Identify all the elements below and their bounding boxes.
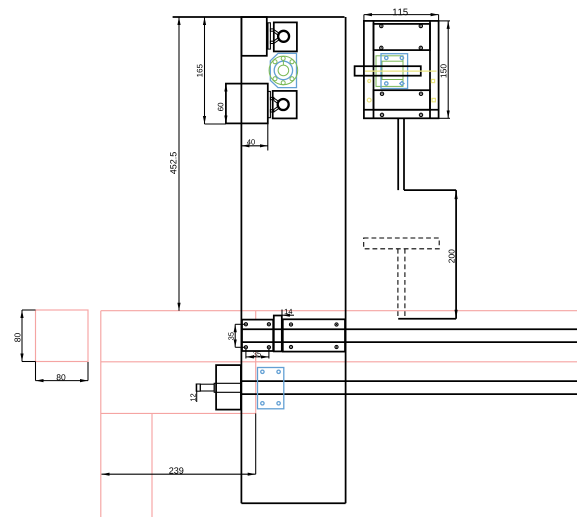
- dimension 14: [282, 309, 294, 317]
- bottom plate holes: [380, 92, 422, 95]
- lower clamp claws: [274, 98, 281, 112]
- upper clamp claws: [274, 30, 281, 44]
- flange blue bolt circle: [274, 61, 292, 79]
- dimension 80 vertical: [14, 310, 35, 362]
- green bracket rect inner: [382, 61, 403, 79]
- dimension 150: [439, 21, 450, 118]
- top plate holes: [380, 24, 423, 49]
- dimension 452.5: [170, 17, 179, 311]
- blue plate holes: [261, 370, 281, 405]
- dashed T horizontal: [364, 238, 440, 249]
- piston rod: [200, 384, 214, 391]
- dimension 115: [364, 9, 439, 21]
- main rail block: [283, 319, 345, 351]
- rod end cap: [196, 384, 200, 391]
- rod flange: [214, 383, 216, 392]
- pink construction line horizontal lower: [101, 412, 256, 414]
- lower bearing box: [273, 91, 297, 119]
- stem: [398, 118, 404, 190]
- lower bearing circle: [278, 99, 289, 110]
- upper clamp block: [241, 17, 266, 56]
- elbow arm: [398, 190, 456, 319]
- pink construction line vertical mid: [151, 413, 153, 517]
- flange blue outline: [270, 53, 296, 87]
- flange bolt holes: [273, 56, 294, 84]
- flange green keyway line: [282, 61, 284, 66]
- actuator mid lines: [216, 383, 241, 392]
- upper bearing circle: [278, 31, 289, 42]
- dimension 60: [218, 84, 226, 124]
- dashed T vertical: [398, 249, 405, 319]
- bottom bolt plate: [374, 90, 431, 110]
- upper bearing box: [274, 22, 297, 51]
- actuator block: [216, 365, 241, 410]
- pink construction line horizontal middle: [101, 361, 577, 363]
- dimension 35 vertical: [228, 324, 244, 347]
- top assembly inner vertical right: [429, 21, 431, 118]
- top assembly outer frame: [364, 21, 439, 118]
- green bracket rect outer: [376, 56, 403, 87]
- slider holes: [244, 323, 270, 349]
- upper clamp bracket: [268, 23, 274, 49]
- joint strip: [274, 316, 282, 352]
- dimension 239: [102, 413, 256, 474]
- shaft bar: [355, 66, 421, 76]
- bottom band: [364, 109, 439, 111]
- main column plate: [173, 17, 346, 503]
- flange green bore circle: [278, 65, 289, 76]
- bottom band holes: [380, 113, 422, 116]
- blue mount plate: [258, 368, 284, 409]
- lower shaft lines: [241, 381, 577, 394]
- dimension 35 horizontal: [246, 349, 269, 359]
- dimension 40: [241, 123, 267, 150]
- upper shaft lines: [241, 329, 577, 342]
- flange green outer circle: [269, 56, 298, 85]
- blue motor plate: [381, 54, 408, 89]
- pink square: [36, 310, 89, 362]
- pink construction line vertical right: [255, 311, 257, 414]
- top assembly inner vertical left: [373, 21, 375, 118]
- top bolt plate: [374, 24, 431, 50]
- lower clamp block: [226, 84, 268, 124]
- dimension 12: [190, 384, 196, 402]
- dimension 200: [449, 249, 455, 262]
- left slider block: [242, 320, 273, 351]
- dimension 80 horizontal: [36, 362, 89, 381]
- pink construction line horizontal upper: [101, 310, 577, 312]
- lower clamp bracket: [268, 91, 274, 117]
- pink construction line vertical left: [100, 311, 102, 517]
- dimension 200 arrows: [455, 190, 458, 199]
- dimension 165: [197, 17, 226, 124]
- blue plate bolt marks: [385, 56, 404, 85]
- yellow marks: [367, 79, 435, 102]
- yellow centerline: [365, 70, 437, 72]
- main rail holes: [289, 323, 338, 349]
